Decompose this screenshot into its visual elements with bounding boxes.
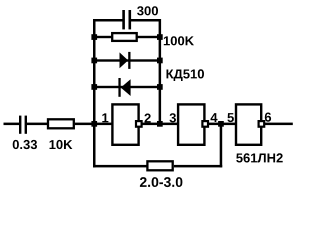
wire bottom right horizontal xyxy=(174,165,222,168)
resistor R3 2.0-3.0 xyxy=(147,161,172,170)
junction right rail at D1 row xyxy=(157,58,163,64)
wire 100K row xyxy=(95,36,159,38)
wire C2 to R2 xyxy=(27,123,48,126)
wire top-right horizontal (C1 to right rail) xyxy=(130,19,161,22)
pin 5 label xyxy=(227,113,234,122)
pin 3 label xyxy=(170,113,177,122)
pin 4 label xyxy=(211,113,218,122)
wire top-left horizontal (left rail to C1) xyxy=(93,19,124,22)
pin 6 label xyxy=(265,113,271,122)
inverter gate U1.3 xyxy=(236,104,261,144)
inversion bubble U1.1 output xyxy=(136,121,142,127)
junction right rail at 100K row xyxy=(157,34,163,40)
diode D2 KD510 xyxy=(118,78,130,97)
resistor R2 10K xyxy=(48,119,74,128)
value label KD510 xyxy=(167,69,205,81)
capacitor C1 300 xyxy=(122,10,131,29)
inverter gate U1.2 xyxy=(178,104,204,144)
inversion bubble U1.3 output xyxy=(259,121,265,127)
junction left rail at input row xyxy=(91,121,97,127)
junction left rail at 100K row xyxy=(91,34,97,40)
part label 561LN2 xyxy=(236,153,283,162)
wire input segment xyxy=(4,123,20,126)
inversion bubble U1.2 output xyxy=(202,121,208,127)
wire right rail vertical xyxy=(159,19,162,125)
value label 100K xyxy=(164,36,194,45)
junction left rail at D2 row xyxy=(91,84,97,90)
wire U1.1 output to U1.2 input xyxy=(142,123,179,126)
wire bottom left horizontal xyxy=(93,165,147,168)
capacitor C2 0.33 xyxy=(19,116,27,134)
value label 0.33 xyxy=(13,140,37,149)
value label 2.0-3.0 xyxy=(140,177,183,187)
wire left rail vertical xyxy=(93,19,96,167)
wire diode D2 row xyxy=(95,86,159,88)
junction left rail at D1 row xyxy=(91,58,97,64)
wire feedback vertical drop xyxy=(220,123,223,167)
value label 10K xyxy=(50,140,73,149)
wire output xyxy=(265,123,293,126)
value label 300 xyxy=(137,6,158,15)
pin 1 label xyxy=(102,113,108,122)
resistor R1 100K xyxy=(112,33,137,41)
junction right rail at gate row xyxy=(157,121,163,127)
junction right rail at D2 row xyxy=(157,84,163,90)
wire R2 to gate U1.1 input xyxy=(75,123,113,126)
wire diode D1 row xyxy=(95,59,159,61)
pin 2 label xyxy=(145,114,151,123)
inverter gate U1.1 xyxy=(112,104,138,144)
wire U1.2 output to U1.3 input xyxy=(208,123,237,126)
junction feedback node xyxy=(218,121,224,127)
diode D1 KD510 xyxy=(120,52,131,69)
